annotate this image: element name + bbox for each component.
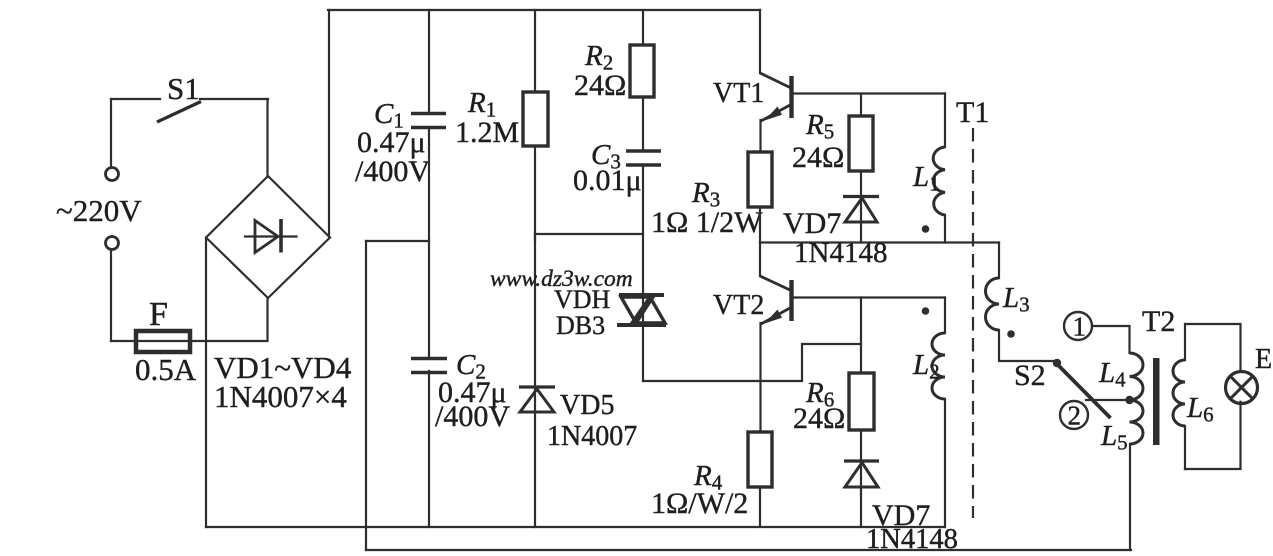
transformer T1 core dashed <box>972 128 974 518</box>
wire VT1 collector from rail <box>759 10 761 73</box>
dot L2 polarity <box>922 307 930 315</box>
inductor L6 <box>1173 360 1214 427</box>
wire VT2 emitter to R4 <box>759 323 761 432</box>
wire L2 top lead <box>944 298 946 334</box>
wire VT1 base line <box>792 92 945 94</box>
wire R2 top lead <box>642 10 644 45</box>
wire C2 bottom lead <box>428 371 430 527</box>
svg-text:0.5A: 0.5A <box>135 352 197 387</box>
svg-text:S2: S2 <box>1014 359 1046 392</box>
wire L6 top lead <box>1184 324 1186 360</box>
svg-text:1Ω 1/2W: 1Ω 1/2W <box>651 206 763 239</box>
svg-text:1Ω/W/2: 1Ω/W/2 <box>651 487 748 520</box>
svg-text:~220V: ~220V <box>56 193 142 228</box>
inductor L2 <box>912 333 945 399</box>
transistor VT2 <box>713 276 792 324</box>
inductor L1 <box>912 147 945 215</box>
wire R6 top lead from VT2 base <box>860 298 862 374</box>
wire bridge bottom lead <box>266 298 268 341</box>
inductor L3 <box>986 278 1030 330</box>
svg-text:1N4148: 1N4148 <box>866 524 958 555</box>
wire bottom rail B <box>366 549 1131 551</box>
dot L1 polarity <box>922 225 930 233</box>
wire L1 top lead <box>944 94 946 148</box>
svg-text:DB3: DB3 <box>556 311 605 340</box>
svg-text:VD5: VD5 <box>560 390 614 421</box>
node 2 circled <box>1060 401 1088 431</box>
wire terminal up lead <box>110 99 112 168</box>
diode VD7 lower <box>844 461 958 555</box>
bridge rectifier VD1~VD4 <box>206 176 352 414</box>
svg-text:www.dz3w.com: www.dz3w.com <box>490 266 633 292</box>
svg-text:24Ω: 24Ω <box>574 69 626 102</box>
wire VT1 emitter to R3 <box>759 120 761 152</box>
wire C1 to C2 <box>428 128 430 357</box>
wire L2 bottom lead <box>944 399 946 527</box>
node 1 circled <box>1064 312 1092 342</box>
wire VT2 collector <box>759 243 761 277</box>
svg-text:1: 1 <box>1073 312 1087 342</box>
wire R1 node down <box>534 234 536 527</box>
wire R2 to C3 <box>642 97 644 151</box>
svg-text:S1: S1 <box>167 71 200 106</box>
resistor R4 <box>651 432 772 520</box>
diode VD7 upper <box>783 197 887 270</box>
wire node2 to tap <box>1086 399 1125 401</box>
wire L3 top lead <box>998 243 1000 279</box>
wire R1 top lead <box>534 10 536 92</box>
wire top rail <box>328 9 760 11</box>
svg-text:1N4148: 1N4148 <box>794 237 887 269</box>
wire mid node horizontal <box>366 240 429 242</box>
wire midpoint rail <box>760 241 999 243</box>
wire R3 to midpoint rail <box>759 207 761 243</box>
wire node R1 to C3 <box>535 233 643 235</box>
resistor R5 <box>792 109 873 174</box>
svg-text:VD7: VD7 <box>783 207 841 240</box>
svg-text:E: E <box>1255 344 1272 375</box>
capacitor C2 <box>411 349 510 433</box>
inductor L4 <box>1098 353 1143 400</box>
svg-text:/400V: /400V <box>435 400 510 433</box>
capacitor C1 <box>355 98 446 188</box>
svg-text:1N4007: 1N4007 <box>547 421 637 452</box>
wire R5 top lead <box>860 94 862 117</box>
wire R6 to VD7 to rail A <box>860 430 862 527</box>
svg-text:T2: T2 <box>1142 305 1175 338</box>
svg-text:0.01μ: 0.01μ <box>573 164 642 197</box>
switch S2 <box>1014 359 1111 418</box>
wire terminal to fuse line <box>110 250 112 342</box>
wire R4 to rail A <box>759 487 761 527</box>
resistor R1 <box>455 87 548 149</box>
diac VDH DB3 <box>554 285 666 340</box>
svg-text:VT2: VT2 <box>713 290 764 321</box>
capacitor C3 <box>573 139 661 197</box>
wire VT2 base line <box>792 296 945 298</box>
wire L6 bottom lead <box>1184 426 1186 469</box>
wire bottom rail A <box>206 526 945 528</box>
fuse F <box>136 331 190 352</box>
svg-text:1.2M: 1.2M <box>455 116 519 149</box>
svg-text:1N4007×4: 1N4007×4 <box>214 379 347 414</box>
wire fuse line <box>111 340 267 342</box>
terminal lower circle <box>106 237 119 250</box>
svg-text:24Ω: 24Ω <box>793 402 845 435</box>
diode VD5 <box>519 387 637 452</box>
svg-text:/400V: /400V <box>355 155 430 188</box>
svg-text:VT1: VT1 <box>713 78 764 109</box>
terminal upper circle <box>106 168 119 181</box>
resistor R3 <box>651 152 772 239</box>
wire S1 to bridge top <box>266 99 268 177</box>
resistor R6 <box>793 373 874 435</box>
svg-text:T1: T1 <box>956 96 989 129</box>
resistor R2 <box>574 40 654 102</box>
wire diac to VT2 base Z <box>643 344 861 381</box>
wire C3 to diac <box>642 165 644 381</box>
wire bridge plus up <box>328 10 330 238</box>
lamp E <box>1226 344 1273 404</box>
transformer T2 core bar <box>1153 358 1160 445</box>
wire R5 to VD7 to midpoint rail <box>860 171 862 243</box>
wire C1 top lead <box>428 10 430 113</box>
wire lamp loop top <box>1185 324 1241 372</box>
wire L3 to S2 <box>999 330 1053 361</box>
wire bridge minus down <box>205 238 207 527</box>
inductor L5 <box>1100 400 1143 455</box>
transistor VT1 <box>713 73 792 121</box>
wire mid node down to rail B <box>365 241 367 550</box>
wire L5 bottom to rail B <box>1129 444 1131 550</box>
dot L3 polarity <box>1007 330 1015 338</box>
svg-text:24Ω: 24Ω <box>792 141 844 174</box>
svg-text:F: F <box>149 296 168 333</box>
dot L4 tap <box>1125 396 1133 404</box>
svg-text:2: 2 <box>1068 401 1082 431</box>
wire L1 bottom lead <box>944 215 946 243</box>
wire node1 to L4 top <box>1092 326 1130 353</box>
wire lamp loop bottom <box>1185 402 1241 469</box>
switch S1 <box>111 71 268 122</box>
wire R1 bottom lead <box>534 146 536 241</box>
